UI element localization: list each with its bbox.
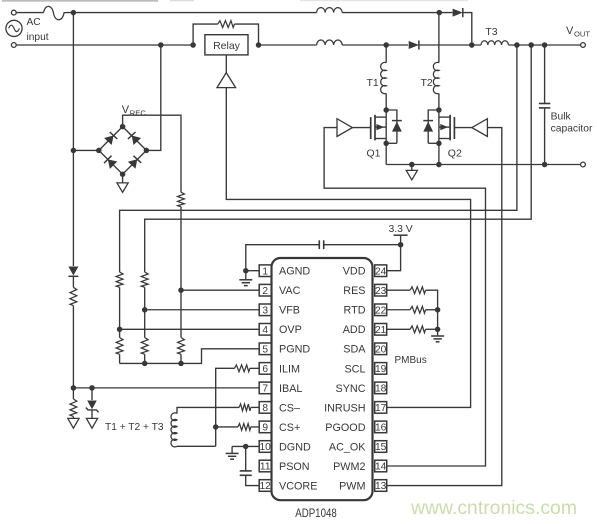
wire VREC sense: [123, 115, 181, 192]
svg-text:17: 17: [375, 403, 387, 414]
wire left vertical upper: [72, 13, 74, 266]
wire L1 to D1: [342, 12, 452, 14]
svg-text:Bulk: Bulk: [551, 112, 572, 123]
pin 6 ILIM: [259, 363, 271, 375]
node Q2 source bus: [436, 162, 442, 168]
resistor VREC upper: [178, 192, 185, 207]
node bridge-left junction: [71, 148, 77, 154]
svg-text:23: 23: [375, 286, 387, 297]
pin 21 ADD: [375, 324, 387, 336]
wire bulk top: [544, 45, 546, 104]
wire col3 bottom: [180, 354, 182, 363]
winding CT: [171, 413, 177, 447]
pin 9 CS+: [259, 421, 271, 433]
node gnd stub: [409, 162, 415, 168]
svg-text:T1 + T2 + T3: T1 + T2 + T3: [105, 422, 164, 433]
resistor col1 lower: [116, 338, 123, 355]
wire DGND: [232, 445, 259, 447]
resistor col3 lower: [178, 338, 185, 355]
wire VFB to pin3: [145, 309, 260, 311]
node AGND junction: [243, 268, 249, 274]
svg-text:19: 19: [375, 364, 387, 375]
wire RES corner: [426, 290, 438, 329]
ground AGND: [239, 279, 252, 281]
svg-text:T2: T2: [421, 77, 433, 89]
cropped caption remnant: [2, 0, 158, 2]
svg-text:T3: T3: [485, 26, 497, 38]
pin 7 IBAL: [259, 382, 271, 394]
wire ILIM to pin6: [250, 367, 259, 369]
svg-text:6: 6: [262, 364, 268, 375]
node rail col3: [178, 361, 184, 367]
svg-text:3: 3: [262, 305, 268, 316]
node VFB tap: [142, 307, 148, 313]
bridge diode D5 (left-bottom arm): [108, 159, 118, 169]
node Vout sense2: [528, 42, 534, 48]
svg-text:4: 4: [262, 325, 268, 336]
svg-text:22: 22: [375, 305, 387, 316]
wire col1 mid: [119, 287, 121, 337]
resistor RTD: [410, 306, 426, 313]
svg-text:AC: AC: [27, 17, 41, 28]
node T2 drain tap: [437, 10, 443, 16]
svg-text:9: 9: [262, 423, 268, 434]
terminal AC neutral: [11, 43, 16, 48]
svg-text:RES: RES: [343, 285, 365, 297]
wire to ground L: [72, 416, 74, 418]
svg-text:ILIM: ILIM: [279, 363, 300, 375]
inductor L1: [317, 8, 343, 13]
svg-text:PMBus: PMBus: [395, 355, 427, 366]
node D1 return: [469, 42, 475, 48]
svg-text:T1: T1: [367, 77, 379, 89]
svg-text:VAC: VAC: [279, 285, 301, 297]
wire IBAL node down: [72, 388, 74, 399]
svg-text:REC: REC: [130, 109, 147, 118]
node ADD join: [435, 327, 441, 333]
pin 8 CS–: [259, 402, 271, 414]
svg-text:OVP: OVP: [279, 324, 302, 336]
wire 3.3V rail: [400, 235, 402, 245]
bridge diode D3 (left-top arm): [104, 136, 113, 146]
capacitor decoupling: [318, 240, 320, 249]
wire divider ground rail: [120, 349, 260, 364]
wire relay to L2: [259, 44, 317, 46]
transistor Q1: [385, 110, 387, 143]
node bulk bottom: [542, 162, 548, 168]
wire cap top left: [246, 245, 319, 271]
svg-text:VDD: VDD: [343, 266, 366, 278]
node bridge top: [120, 124, 126, 130]
node Q1 source: [383, 141, 389, 147]
wire CS+ wires: [216, 426, 238, 428]
svg-text:PWM: PWM: [339, 480, 365, 492]
wire ILIM vertical: [216, 368, 235, 446]
svg-text:VCORE: VCORE: [279, 480, 317, 492]
bridge diode D4 (top-right arm): [132, 136, 141, 146]
wire gnd stub: [411, 165, 413, 171]
wire Q2 gate lead: [454, 127, 471, 129]
resistor CS+: [238, 424, 251, 431]
svg-text:IBAL: IBAL: [279, 383, 302, 395]
terminal AC line: [11, 10, 16, 15]
svg-text:20: 20: [375, 345, 387, 356]
inductor L2: [317, 40, 343, 45]
svg-text:Relay: Relay: [213, 40, 241, 52]
wire AGND gnd stub: [245, 271, 247, 280]
node relay in: [190, 42, 196, 48]
wire bridge right up: [146, 45, 160, 150]
wire relay driver to INRUSH: [226, 88, 470, 408]
svg-text:Q2: Q2: [448, 148, 462, 160]
node relay left: [158, 42, 164, 48]
wire CT bottom: [177, 445, 216, 447]
wire L2 to D2: [342, 44, 408, 46]
wire Q1 source down: [385, 143, 387, 164]
wire RES: [387, 289, 410, 291]
pin 10 DGND: [259, 441, 271, 453]
svg-text:INRUSH: INRUSH: [324, 402, 365, 414]
node bridge left: [96, 148, 102, 154]
ground RES chain: [431, 335, 444, 337]
transistor Q2: [438, 110, 440, 143]
svg-text:V: V: [122, 104, 130, 116]
node zener top: [89, 385, 95, 391]
svg-text:PGND: PGND: [279, 344, 310, 356]
wire bridge left to main: [73, 149, 98, 151]
pin 18 SYNC: [375, 382, 387, 394]
svg-text:2: 2: [262, 286, 268, 297]
svg-text:21: 21: [375, 325, 387, 336]
winding T2: [433, 62, 439, 93]
buffer relay driver: [217, 73, 236, 88]
svg-text:SYNC: SYNC: [336, 383, 366, 395]
resistor left lower: [70, 399, 77, 416]
svg-text:8: 8: [262, 403, 268, 414]
svg-text:15: 15: [375, 442, 387, 453]
wire to gnd RES chain: [437, 329, 439, 336]
ground bridge: [117, 183, 128, 192]
wire DGND gnd stub: [231, 446, 233, 453]
wire col2 mid: [144, 287, 146, 337]
node bulk cap top: [542, 42, 548, 48]
wire Vout sense1 route: [120, 45, 517, 272]
wire Q2 source down: [438, 143, 440, 164]
wire IBAL: [73, 387, 259, 389]
svg-text:AGND: AGND: [279, 266, 310, 278]
bridge diode D6 (bottom-right arm): [128, 159, 137, 169]
svg-text:input: input: [27, 32, 49, 43]
wire Vout sense2 route: [145, 45, 532, 272]
wire Q1 driver to PWM2 route: [324, 128, 485, 466]
pin 2 VAC: [259, 284, 271, 296]
wire ADD join: [426, 328, 438, 330]
wire AC neutral: [16, 44, 193, 46]
pin 23 RES: [375, 284, 387, 296]
svg-text:www.cntronics.com: www.cntronics.com: [410, 498, 577, 519]
buffer Q1 driver: [337, 119, 352, 137]
node CS+ junction: [213, 424, 219, 430]
wire relay drive stub: [225, 55, 227, 73]
node T1 drain tap: [383, 42, 389, 48]
wire RTD: [387, 309, 410, 311]
wire Q2 driver to PWM route: [387, 128, 502, 486]
wire ground bus: [386, 164, 580, 166]
inductor T3: [481, 41, 508, 45]
pin 24 VDD: [375, 265, 387, 277]
terminal VOUT: [581, 43, 586, 48]
capacitor bulk: [539, 103, 550, 105]
wire T2 top: [438, 13, 440, 63]
pin 5 PGND: [259, 343, 271, 355]
resistor relay bypass: [218, 21, 235, 28]
pin 22 RTD: [375, 304, 387, 316]
node top junction: [71, 10, 77, 16]
svg-text:16: 16: [375, 423, 387, 434]
winding T1: [381, 62, 387, 93]
svg-text:3.3 V: 3.3 V: [388, 224, 412, 235]
node DGND junction: [243, 444, 249, 450]
pin 11 PSON: [259, 460, 271, 472]
svg-text:1: 1: [262, 266, 268, 277]
pin 3 VFB: [259, 304, 271, 316]
svg-text:SCL: SCL: [344, 363, 365, 375]
resistor ADD: [410, 326, 426, 333]
wire fuse to L1: [67, 12, 317, 14]
wire ADD: [387, 328, 410, 330]
resistor CS-: [239, 404, 251, 411]
svg-text:V: V: [566, 25, 574, 37]
svg-text:RTD: RTD: [344, 305, 366, 317]
wire cap top right: [324, 244, 401, 246]
pin 4 OVP: [259, 324, 271, 336]
wire relay bypass loop: [193, 24, 218, 45]
resistor ILIM: [235, 365, 250, 372]
wire top-left to fuse: [16, 12, 43, 14]
wire R to IBAL node: [72, 306, 74, 388]
wire zener stub: [91, 388, 93, 400]
svg-text:capacitor: capacitor: [551, 124, 593, 135]
svg-text:VFB: VFB: [279, 305, 300, 317]
node Q2 source: [436, 141, 442, 147]
resistor col2 upper: [141, 272, 148, 287]
wire VDD pin24: [387, 245, 401, 271]
svg-text:7: 7: [262, 384, 268, 395]
svg-text:10: 10: [260, 442, 272, 453]
wire D2 to T3: [419, 44, 481, 46]
svg-text:Q1: Q1: [367, 148, 381, 160]
resistor col1 upper: [116, 272, 123, 287]
wire Q1 gate lead: [352, 127, 370, 129]
node VDD top: [398, 242, 404, 248]
wire col2 bottom: [144, 354, 146, 363]
svg-text:DGND: DGND: [279, 441, 311, 453]
pin 15 AC_OK: [375, 441, 387, 453]
svg-text:5: 5: [262, 345, 268, 356]
pin 17 INRUSH: [375, 402, 387, 414]
pin 20 SDA: [375, 343, 387, 355]
pin 16 PGOOD: [375, 421, 387, 433]
wire T2 to Q2 drain: [438, 93, 440, 110]
node Q1 drain: [383, 107, 389, 113]
svg-text:CS+: CS+: [279, 422, 300, 434]
wire RTD join: [426, 309, 438, 311]
zener Z1: [87, 401, 97, 410]
ground bus symbol: [406, 170, 417, 180]
svg-text:PSON: PSON: [279, 461, 310, 473]
wire OVP to pin4: [120, 328, 260, 330]
node VAC tap: [178, 287, 184, 293]
svg-text:CS–: CS–: [279, 402, 300, 414]
pin 12 VCORE: [259, 480, 271, 492]
resistor col2 lower: [141, 338, 148, 355]
ground zener: [86, 418, 97, 428]
node relay out: [256, 42, 262, 48]
wire T1 to Q1 drain: [385, 93, 387, 110]
wire VAC to pin2: [181, 289, 259, 291]
svg-text:ADP1048: ADP1048: [295, 506, 337, 520]
resistor left upper: [70, 287, 77, 305]
terminal return: [581, 162, 586, 167]
svg-text:12: 12: [260, 481, 272, 492]
op-amp U1 ADP1048 body: [272, 258, 373, 500]
wire col1 bottom: [119, 354, 121, 363]
node RTD join: [435, 307, 441, 313]
svg-text:PGOOD: PGOOD: [325, 422, 365, 434]
node bridge bottom: [120, 171, 126, 177]
node IBAL left: [71, 385, 77, 391]
wire T1 top: [385, 45, 387, 63]
svg-text:PWM2: PWM2: [333, 461, 365, 473]
wire col3 down: [180, 207, 182, 338]
wire CT top to CS-: [177, 407, 239, 413]
node OVP tap: [117, 327, 123, 333]
buffer Q2 driver: [472, 119, 488, 137]
svg-text:13: 13: [375, 481, 387, 492]
diode D2: [409, 41, 419, 49]
wire D1 corner down: [463, 13, 472, 45]
wire D7 to R: [72, 276, 74, 287]
svg-text:AC_OK: AC_OK: [329, 441, 366, 453]
svg-text:24: 24: [375, 266, 387, 277]
svg-text:SDA: SDA: [343, 344, 366, 356]
ground DGND: [226, 452, 239, 454]
ground left resistor: [68, 418, 79, 428]
node rail col2: [142, 361, 148, 367]
svg-text:11: 11: [260, 462, 271, 473]
node Vout sense1: [514, 42, 520, 48]
diode D7: [68, 267, 78, 276]
wire CS- to pin8: [251, 406, 259, 408]
wire T3 to VOUT: [508, 44, 580, 46]
fuse F1: [44, 6, 67, 19]
svg-text:OUT: OUT: [574, 30, 590, 39]
wire bridge bottom stub: [122, 174, 124, 183]
node Q2 drain: [436, 107, 442, 113]
capacitor VCORE: [240, 470, 252, 472]
node bridge right: [144, 148, 150, 154]
wire cap to VCORE pin12: [246, 475, 260, 485]
resistor RES: [410, 287, 426, 294]
pin 13 PWM: [375, 480, 387, 492]
pin 14 PWM2: [375, 460, 387, 472]
AC source symbol: [6, 20, 22, 36]
svg-text:ADD: ADD: [343, 324, 366, 336]
wire bulk bottom: [544, 108, 546, 165]
pin 1 AGND: [259, 265, 271, 277]
svg-text:14: 14: [375, 462, 387, 473]
relay K1: [205, 35, 248, 55]
diode D1: [453, 9, 463, 17]
wire DGND to cap: [245, 446, 247, 470]
bridge arm wires: [99, 127, 123, 151]
pin 19 SCL: [375, 363, 387, 375]
svg-text:18: 18: [375, 384, 387, 395]
